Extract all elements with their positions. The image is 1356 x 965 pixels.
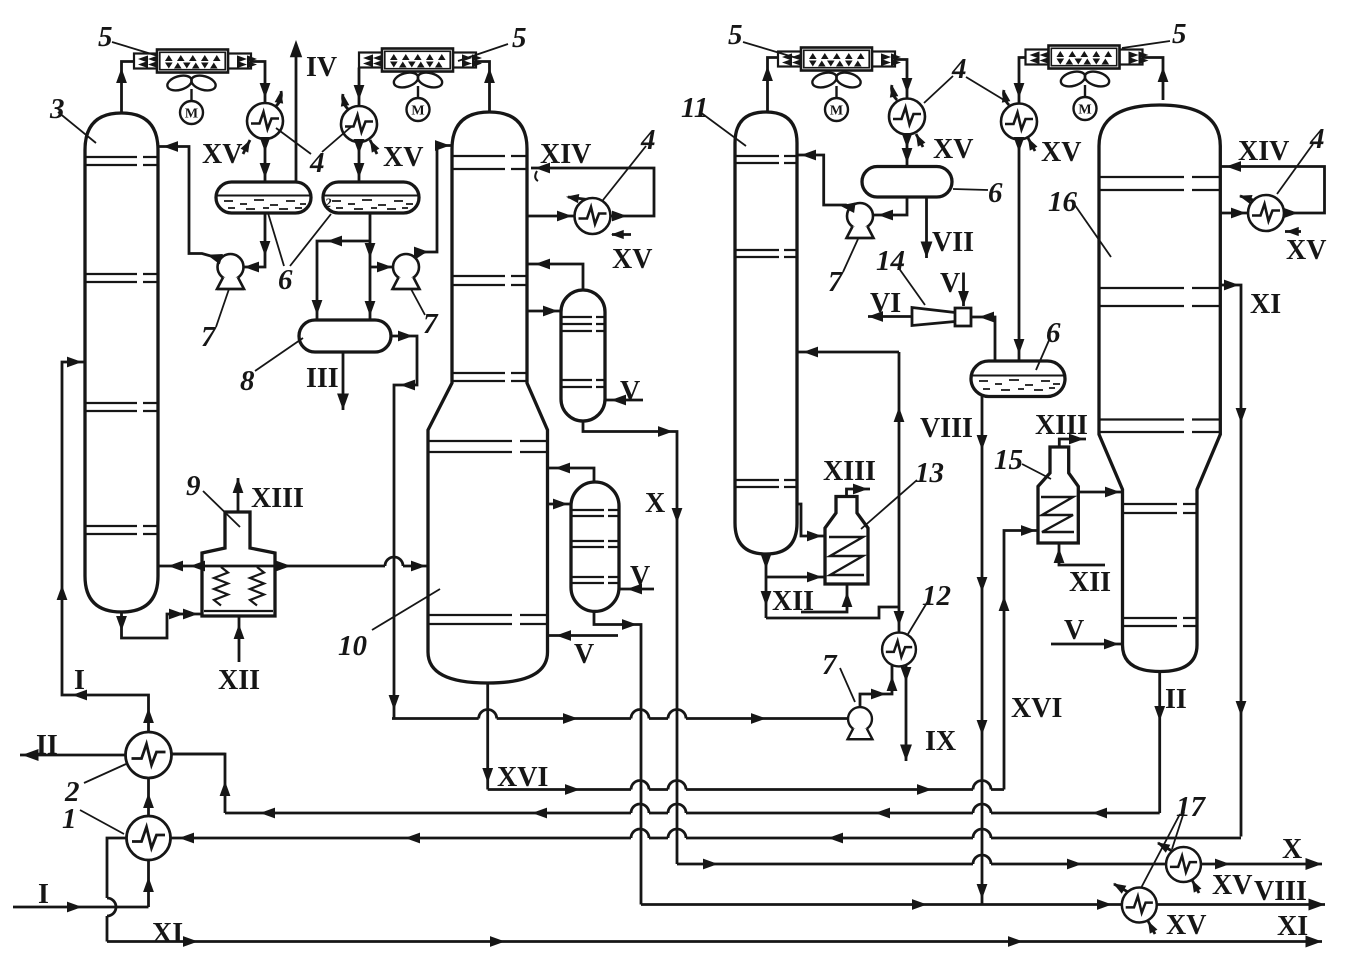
arrow draw to stripper A [543,306,558,317]
svg-text:V: V [574,639,594,670]
svg-text:II: II [36,730,58,761]
wire: stream XII into heater 15 [1059,543,1105,565]
svg-text:XV: XV [383,142,423,173]
XV arrow exchanger 17a [1188,878,1201,893]
XV tick into condenser 4 no.1 [243,140,250,154]
stripper A trays [562,317,604,387]
svg-text:XV: XV [933,134,973,165]
wire: cooler 5 no.2 outlet down to condenser 4 no.2 [358,68,361,107]
arrow ejector suction [979,312,994,323]
wire: stream XI bus to exchanger 1 [171,837,1242,840]
arrow pump 3 discharge [839,200,855,213]
svg-text:X: X [645,488,665,519]
leader 2 [84,764,126,783]
hops of II bus [631,804,991,813]
svg-text:7: 7 [423,308,439,340]
leader 4 no.5 [1277,144,1313,194]
svg-text:4: 4 [640,124,656,156]
arrow stripper A return [535,259,550,270]
wire: stream III from drum 8 [342,352,345,410]
wire: exchanger 2 right connection [172,753,226,756]
arrow pump 2 discharge [414,247,429,258]
svg-text:XII: XII [218,665,260,696]
column 11 [735,112,797,554]
arrow into drum 8 left [312,300,323,315]
arrows feed bus to pump 4 [563,713,578,724]
svg-text:X: X [1282,834,1302,865]
wire: cooler 5 no.1 outlet down to condenser 4 no.1 [251,62,265,104]
leader 9 [203,491,240,527]
XV tick into exchanger 17a [1192,880,1199,893]
wire: steam V into ejector 14 [962,273,965,307]
fan of cooler no.3 [811,70,863,121]
svg-text:16: 16 [1048,186,1078,218]
arrow into pump 2 [377,262,392,273]
arrow column 10 bottoms down [482,768,493,783]
leader 8 [255,338,303,371]
wire: column 11 bottoms down [765,554,768,618]
svg-text:9: 9 [186,470,201,502]
svg-text:XIII: XIII [823,456,876,487]
arrows condenser 1 to drum 1 [260,137,271,152]
arrows condenser 3 to drum 3 [902,133,913,148]
arrow stream II down [1154,706,1165,721]
arrows drum 1 to pump 1 [260,241,271,256]
wire: reboiler 9 return to column 3 and feed to column 10 [158,565,428,568]
exchanger 17a [1166,847,1201,882]
column 3 trays [86,157,157,534]
arrows stream I riser [57,585,68,600]
svg-text:XI: XI [152,918,183,949]
vent of exchanger 4 mid [568,197,599,201]
wire: cooler 5 no.3 outlet to condenser 4 no.3 [895,60,907,99]
arrow into condenser 4 no.4 [1014,83,1025,98]
wire: riser from I line to exchanger 1 [147,860,150,907]
arrow into condenser 4 no.2 [354,85,365,100]
svg-text:VIII: VIII [920,413,973,444]
wire: column 3 overhead vapor to cooler 5 no.1 [122,62,135,114]
arrows top of exchanger 2 to column 3 riser [143,708,154,723]
hops of XVI bus [631,781,991,790]
vent arrow condenser 3 [888,84,899,97]
arrow stream I inlet [67,902,82,913]
vent arrow exchanger 17b [1111,879,1127,893]
arrows exchanger 12 riser [894,407,905,422]
arrow down into condenser 4 no.1 [260,83,271,98]
XV arrow exchanger 17b [1144,919,1157,934]
svg-text:IX: IX [925,726,956,757]
leader 7 no.3 [843,239,858,272]
svg-text:3: 3 [49,93,65,125]
svg-text:V: V [630,561,650,592]
arrows pump 4 discharge [871,689,886,700]
arrows stream XVI bus [565,784,580,795]
hop of XI downcomer around I line [107,898,116,916]
svg-text:XV: XV [1166,910,1206,941]
leader 5 no.1 [112,42,158,56]
wire: heater 15 outlet to column 16 [1078,491,1122,494]
arrow stream IV up [290,40,302,57]
arrows pumparound exchanger 4 no.5 [1231,208,1246,219]
arrow heater 15 to column 16 [1105,487,1120,498]
fan of cooler no.1 [166,73,218,124]
hop of reboiler line over drum 8 downcomer [385,557,403,566]
svg-text:10: 10 [338,630,367,662]
arrow col 16 overhead up [1158,67,1169,82]
leader 6 no.3 [953,189,988,190]
vent arrow condenser 4 no.4 [1000,89,1011,102]
wire: drum 6 no.2 branch to pump 7 no.2 [370,266,393,269]
arrow between exchangers 1 and 2 [143,793,154,808]
wire: drum 6 no.1 to pump 7 no.1 [244,213,265,267]
arrow sidedraw into heater 13 [807,531,822,542]
wire: drum 6 no.2 bottoms down [369,213,372,320]
svg-text:XV: XV [1212,870,1252,901]
wire: stream XVI bus to heater 15 riser [488,788,1004,791]
arrows stream VIII vertical [977,435,988,450]
settling drum 8 [299,320,391,352]
arrows stream XI bus [179,833,194,844]
wire: column 16 pumparound through exchanger 4 no.5, stream XIV [1220,167,1324,214]
vent of exchanger 17a [1158,843,1172,851]
wire: stream V into stripper A [605,399,643,402]
leader 4 no.3-4 [924,76,1004,103]
exchanger 17b [1122,888,1157,923]
svg-text:5: 5 [512,22,527,54]
wire: drum 8 outlet jog down to exchanger bus [391,336,417,719]
exchanger 1 [127,816,171,860]
arrow V into stripper A [611,395,626,406]
arrow stream XII into heater 15 [1054,548,1065,563]
wire: stream I inlet line [13,906,149,909]
wire: stripper A bottoms, stream X line down [583,421,677,864]
svg-text:IV: IV [306,52,337,83]
svg-text:6: 6 [1046,317,1061,349]
reflux drum 6 no.3 [862,167,952,198]
drum 6 no.4 liquid level [972,375,1064,377]
svg-text:I: I [74,665,85,696]
svg-text:VII: VII [932,227,974,258]
arrows stream X line [658,426,673,437]
arrow drum 3 to pump 3 [878,210,893,221]
side stripper A (upper) [561,290,605,421]
arrow col 3 bottoms down [116,616,127,631]
leader 3 [58,112,96,143]
leader 4 no.1-2 [276,126,352,154]
heater vessel 15 [1038,447,1078,543]
arrow drum2 branch left [327,236,342,247]
wire: drum 6 no.2 branch to drum 8 left port [317,241,370,320]
pump 7 no.2 [393,254,420,289]
air cooler 5 no.2 [359,49,482,72]
side stripper B (lower) [571,482,619,611]
wire: riser from II bus into exchanger 2 [172,754,226,813]
vent arrow exchanger 17a [1155,838,1171,852]
reflux drum 6 no.4 [971,361,1065,397]
vent of condenser 4 no.3 [892,85,897,100]
reflux drum 6 no.1 [216,182,311,213]
condenser 4 no.1 [247,103,283,139]
wire: stream II out of exchanger 2 [20,754,126,757]
condenser 4 no.3 [889,99,925,135]
leader 17 [1141,812,1184,888]
arrow stream XIII from heater 15 [1069,434,1084,445]
arrows drum 8 outlet jog [398,331,413,342]
arrow stream III down [337,394,349,411]
drum 6 no.2 liquid level [324,195,418,197]
air cooler 5 no.3 [778,48,901,71]
leader 1 [80,810,124,834]
wire: column 16 overhead vapor to cooler 5 no.4 [1143,58,1164,101]
XV arrow condenser 1 [241,138,254,153]
wire: stream IX from exchanger 12 [905,665,908,761]
wire: stream XVI riser into heater 15 [1004,531,1038,790]
arrow stream V into column 16 [1104,639,1119,650]
wire: column 10 pumparound to exchanger 4 mid [527,168,654,216]
wire: stream VII from drum 6 no.3 [925,197,928,258]
leader 7 no.4 [840,668,855,702]
wire: pump 7 no.4 discharge to exchanger 12 [860,665,892,708]
leader 6 no.1-2 [268,213,331,266]
arrows stream XI sidedraw [1224,280,1239,291]
svg-text:XIII: XIII [251,483,304,514]
wire: column 16 sidedraw stream XI down right side [1220,285,1241,837]
vent of condenser 4 no.4 [1004,90,1009,105]
heater 13 coil [829,537,864,575]
svg-text:4: 4 [951,53,967,85]
leader 5 no.2 [458,44,508,61]
arrow riser to exchanger 1 [143,877,154,892]
arrows column 11 bottoms [761,554,772,569]
leader 11 [700,112,746,146]
XV arrow condenser 2 [366,138,379,153]
arrow reflux into column 3 [163,141,178,152]
svg-text:XV: XV [612,244,652,275]
svg-text:XIV: XIV [540,139,591,170]
wire: cooler 5 no.4 outlet to condenser 4 no.4 [1019,58,1026,104]
leader 15 [1022,464,1051,479]
stripper B trays [572,510,618,583]
svg-text:XI: XI [1277,911,1308,942]
svg-text:XIV: XIV [1238,136,1289,167]
arrows stream X bus [703,859,718,870]
svg-text:XV: XV [1041,137,1081,168]
wire: pump 7 no.2 discharge reflux to column 10 [415,146,452,259]
arrows pumparound exchanger mid [557,211,572,222]
svg-text:12: 12 [922,580,951,612]
wire: pump 7 no.3 discharge reflux to column 11 [797,155,851,207]
XV tick into condenser 4 no.4 [1028,138,1035,151]
wire: stream V into stripper B [619,588,654,591]
exchanger 12 [882,633,916,667]
column 10 trays [429,156,546,624]
wire: column 11 bottoms to exchanger 12 [766,607,899,618]
arrow stripper B return [555,463,570,474]
wire: stream V into column 16 [1051,643,1123,646]
arrow stripper B bottoms [622,619,637,630]
svg-text:I: I [38,879,49,910]
svg-text:17: 17 [1176,791,1207,823]
column 11 trays [736,156,796,487]
wire: exchanger 1 to exchanger 2 [147,777,150,816]
wire: condenser 4 no.3 to drum 6 no.3 [906,135,909,167]
vent of exchanger 4 no.5 [1240,196,1253,200]
hops of XI bus [631,829,991,838]
hop of X bus [973,855,991,864]
svg-text:VI: VI [870,288,901,319]
wire: pump 7 no.1 discharge reflux to column 3 [158,147,222,260]
wire: stream XIII from heater 13 [847,489,871,497]
vent arrow condenser 2 [339,93,350,106]
arrow up column 3 overhead [116,68,127,83]
arrow stream VII down [921,242,933,259]
svg-text:8: 8 [240,365,255,397]
column 16 [1099,105,1220,672]
svg-text:5: 5 [728,19,743,51]
wire: condenser 4 no.1 to drum 6 no.1 [264,139,267,182]
svg-text:2: 2 [324,195,332,210]
fan of cooler no.4 [1059,69,1111,120]
wire: column 11 overhead vapor to cooler 5 no.3 [768,58,779,113]
wire: column 10 draw to stripper B [548,503,572,506]
XV arrow exchanger 4 no.5 [1286,227,1299,236]
svg-text:6: 6 [988,177,1003,209]
column 3 [85,113,158,612]
wire: column 10 overhead vapor to cooler 5 no.2 [476,62,490,113]
wire: stream V into column 10 bottom [548,634,619,637]
column 10 [428,112,548,683]
XV tick into condenser 4 no.3 [916,134,923,147]
arrows reboiler to column 10 [276,561,291,572]
arrows stream XI bottom bus [183,936,198,947]
wire: stream XII into reboiler 9 [238,616,241,662]
wire: stream II bus to exchanger 2 [225,812,1160,815]
arrow stream VI out [868,311,883,322]
svg-text:11: 11 [681,92,708,124]
wire: stream XIII from heater 15 [1059,439,1086,447]
wire: stream VI from ejector 14 [868,315,912,318]
fan of cooler no.2 [392,70,444,121]
condenser 4 no.4 [1001,104,1037,140]
arrow stream XII into reboiler [234,624,245,639]
ejector 14 body [912,308,971,327]
vent of condenser 4 no.1 [275,91,281,107]
svg-text:XVI: XVI [497,762,548,793]
svg-text:4: 4 [1309,123,1325,155]
svg-text:II: II [1165,684,1187,715]
leader 10 [372,589,440,630]
svg-text:5: 5 [98,21,113,53]
column 16 trays [1100,177,1219,626]
arrows condenser 4 to drum 4 [1014,137,1025,152]
wire: column 11 sidedraw into heater 13 [797,504,825,536]
arrows stream II bus [260,808,275,819]
leader 5 no.3 [743,42,800,59]
svg-text:XV: XV [1286,235,1326,266]
vent of exchanger 17b [1114,884,1128,892]
wire: stream XIII from reboiler 9 [237,478,240,512]
arrow stream XIII from heater 13 [853,484,868,495]
XV arrow exchanger mid [611,230,624,239]
svg-text:2: 2 [64,776,80,808]
svg-text:XIII: XIII [1035,410,1088,441]
arrow col 11 overhead up [762,66,773,81]
heater vessel 13 [825,497,868,585]
XV tick into condenser 4 no.2 [370,140,377,154]
arrow V into column 10 [556,630,571,641]
arrows reboiler return to column 3 [168,561,183,572]
arrows drum 2 bottoms [365,243,376,258]
svg-text:VIII: VIII [1254,876,1307,907]
reboiler 9 [202,512,275,616]
leader 14 [898,267,925,305]
heater 15 coil [1041,497,1074,532]
XV stub into exchanger 4 no.5 [1285,230,1301,233]
exchanger 4 no.5 [1248,195,1284,231]
leader 4 mid [603,146,646,200]
svg-text:V: V [940,268,960,299]
arrow stream XIII reboiler up [233,478,244,493]
svg-text:XII: XII [772,586,814,617]
svg-text:5: 5 [1172,18,1187,50]
pump 7 no.3 [847,203,874,238]
wire: column 11 bottoms branch into heater 13 [766,576,825,579]
svg-text:4: 4 [309,147,325,179]
wire: column 3 bottoms to reboiler 9 [122,612,203,638]
arrow branch into heater 13 [807,572,822,583]
arrow into condenser 4 no.3 [902,78,913,93]
arrow steam V into ejector [958,291,969,306]
svg-text:III: III [306,363,339,394]
exchanger 4 mid [575,198,611,234]
wire: stream VIII bus to right edge [641,903,1325,906]
wire: stream IV from drum 6 no.1 [295,44,298,182]
reflux drum 6 no.2 [323,182,419,213]
reboiler 9 coils [214,567,264,606]
svg-text:V: V [620,376,640,407]
arrow pump 1 discharge [205,250,223,265]
squiggle mark under XIV arrow [535,171,538,181]
arrows stream VIII bus [912,899,927,910]
wire: exchanger 1 left outlet down to XI bus [107,838,126,942]
wire: drum 6 no.4 bottoms stream VIII down [981,397,984,905]
wire: hot feed bus to pump 7 no.4 [392,717,847,720]
air cooler 5 no.1 [134,50,257,73]
svg-text:7: 7 [822,649,838,681]
exchanger 2 [126,732,172,778]
wire: stripper B overhead return to column 10 [548,468,595,482]
wire: stream I feed riser into column 3 [62,362,149,732]
leader 7 no.2 [411,289,425,315]
leader 12 [908,601,928,634]
vent arrow exchanger mid [565,192,579,203]
wire: condenser 4 no.4 to drum 6 no.4 [1018,140,1021,362]
leader 13 [861,480,917,529]
wire: stream XI bottom bus to right edge [107,940,1322,943]
wire: drum 6 no.3 to pump 7 no.3 [874,197,907,215]
arrows stream IX [901,667,912,682]
arrows condenser 2 to drum 2 [354,139,365,154]
arrow riser into exchanger 2 [220,781,231,796]
XV arrow condenser 3 [912,132,925,147]
svg-text:V: V [1064,615,1084,646]
drum 6 no.1 liquid level [217,195,310,197]
leader 16 [1072,201,1111,257]
wire: stripper B bottoms line down [594,611,641,904]
leader 6 no.4 [1036,338,1050,370]
wire: exchanger 12 riser to column 11 [797,352,899,633]
leader 7 no.1 [216,289,229,327]
